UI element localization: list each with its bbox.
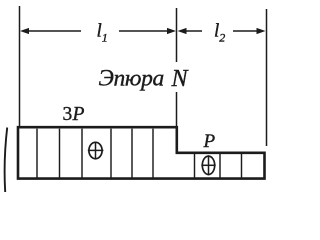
svg-text:P: P bbox=[203, 131, 216, 152]
svg-text:3P: 3P bbox=[63, 104, 85, 125]
svg-text:N: N bbox=[171, 66, 190, 92]
svg-text:Эпюра: Эпюра bbox=[99, 66, 164, 92]
svg-text:l1: l1 bbox=[97, 21, 108, 45]
svg-text:l2: l2 bbox=[214, 21, 225, 45]
